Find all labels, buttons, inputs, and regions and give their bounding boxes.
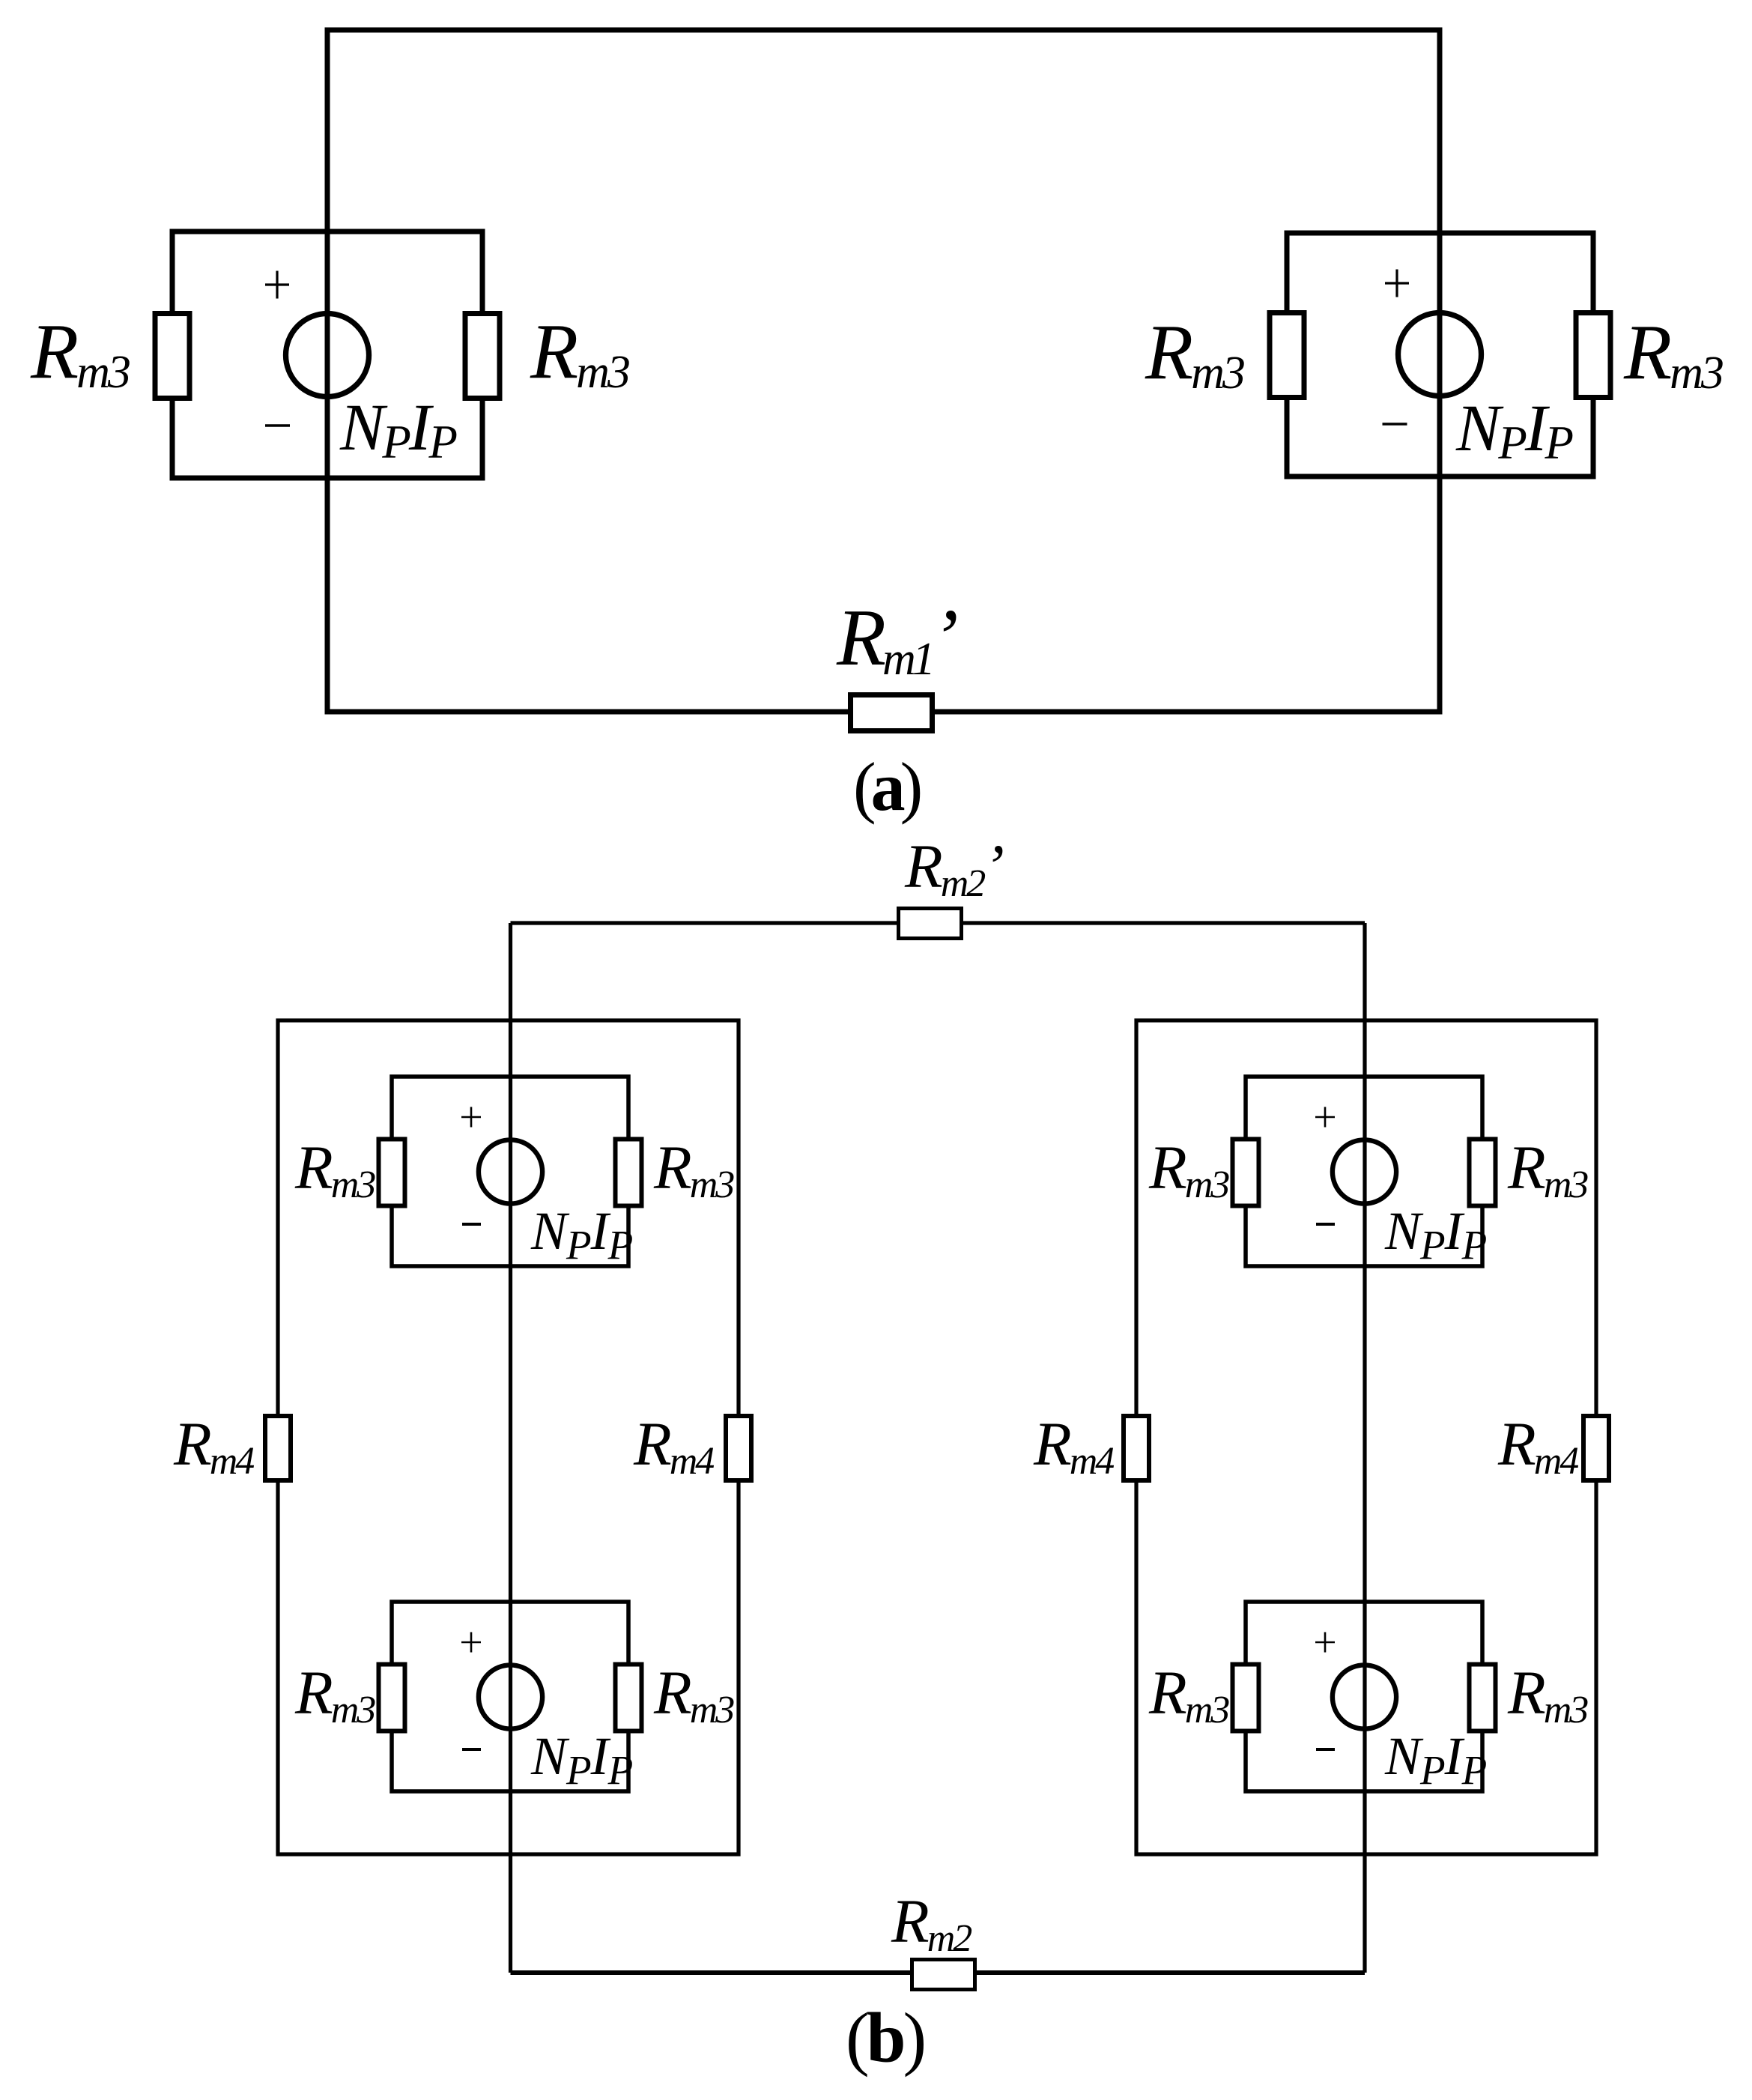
wire: main loop of diagram (a) [327,30,1440,712]
wire: MMF source cell box (lower-left, diagram b) [392,1602,628,1791]
resistor Rm4 #1 (diagram b) [265,1416,291,1480]
minus sign (left source, diagram a) [265,424,290,427]
MMF source NpIp (upper-right, diagram b) [1333,1140,1396,1203]
wire: MMF source cell box (upper-right, diagram b) [1246,1077,1482,1266]
MMF source NpIp (lower-left, diagram b) [479,1665,542,1728]
resistor Rm3 (left cell, right leg, diagram a) [465,314,500,399]
MMF source NpIp (right, diagram a) [1398,313,1482,396]
wire: bottom link with Rm2 (diagram b) [511,1970,1365,1975]
resistor Rm3 (upper-left cell, left leg, diagram b) [379,1140,405,1206]
svg-text:(b): (b) [846,1998,924,2078]
minus sign (lower-left source, diagram b) [462,1748,481,1751]
wire: left outer loop box (diagram b) [278,1020,739,1854]
plus sign (upper-right source, diagram b) [1315,1107,1335,1128]
minus sign (lower-right source, diagram b) [1316,1748,1335,1751]
wire: MMF source cell box (lower-right, diagram b) [1246,1602,1482,1791]
wire: left center vertical (diagram b) [509,923,512,1973]
plus sign (left source, diagram a) [265,271,289,299]
svg-text:(a): (a) [853,748,921,825]
resistor Rm3 (upper-right cell, left leg, diagram b) [1233,1140,1259,1206]
resistor Rm3 (upper-left cell, right leg, diagram b) [616,1140,642,1206]
resistor Rm3 (right cell, right leg, diagram a) [1576,313,1610,398]
wire: right center vertical (diagram b) [1363,923,1366,1973]
resistor Rm2’ (top wire, diagram b) [899,909,962,939]
resistor Rm3 (lower-left cell, left leg, diagram b) [379,1665,405,1731]
plus sign (lower-right source, diagram b) [1315,1633,1335,1653]
plus sign (lower-left source, diagram b) [461,1633,481,1653]
wire: MMF source cell box (left, diagram a) [172,232,482,478]
resistor Rm3 (lower-right cell, left leg, diagram b) [1233,1665,1259,1731]
resistor Rm3 (lower-right cell, right leg, diagram b) [1470,1665,1496,1731]
minus sign (upper-right source, diagram b) [1316,1223,1335,1226]
wire: top link with Rm2’ (diagram b) [511,921,1365,925]
resistor Rm4 #2 (diagram b) [726,1416,751,1480]
wire: MMF source cell box (right, diagram a) [1287,233,1593,476]
resistor Rm3 (right cell, left leg, diagram a) [1270,313,1304,398]
MMF source NpIp (lower-right, diagram b) [1333,1665,1396,1728]
resistor Rm4 #4 (diagram b) [1583,1416,1609,1480]
minus sign (right source, diagram a) [1383,423,1407,426]
resistor Rm3 (left cell, left leg, diagram a) [155,314,190,399]
resistor Rm4 #3 (diagram b) [1124,1416,1149,1480]
MMF source NpIp (left, diagram a) [286,314,369,397]
resistor Rm3 (lower-left cell, right leg, diagram b) [616,1665,642,1731]
resistor Rm3 (upper-right cell, right leg, diagram b) [1470,1140,1496,1206]
resistor Rm2 (bottom wire, diagram b) [912,1960,975,1990]
plus sign (right source, diagram a) [1385,270,1409,297]
resistor Rm1’ (bottom wire, diagram a) [851,695,933,731]
MMF source NpIp (upper-left, diagram b) [479,1140,542,1203]
minus sign (upper-left source, diagram b) [462,1223,481,1226]
wire: right outer loop box (diagram b) [1136,1020,1596,1854]
plus sign (upper-left source, diagram b) [461,1107,481,1128]
wire: MMF source cell box (upper-left, diagram b) [392,1077,628,1266]
